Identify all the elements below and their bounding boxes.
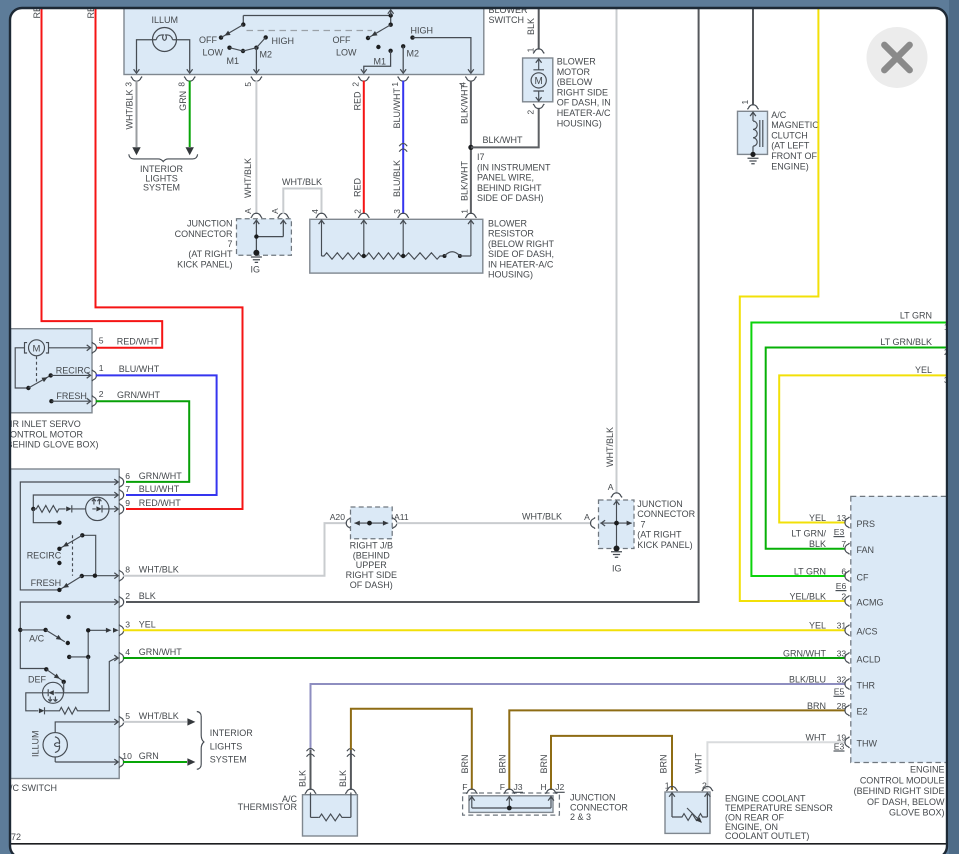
svg-text:FAN: FAN: [857, 545, 875, 555]
svg-text:7: 7: [841, 539, 846, 549]
close button: [867, 27, 928, 88]
svg-text:M: M: [33, 343, 41, 354]
svg-text:BLK: BLK: [526, 18, 536, 35]
junction connector 7 (middle) internal: [600, 501, 632, 552]
svg-text:A/CS: A/CS: [857, 627, 878, 637]
A/C thermistor pin right: [345, 789, 356, 794]
wire BLU/WHT-BLU/BLK blower pin 1 to resistor pin 3: [392, 81, 407, 214]
svg-text:9: 9: [125, 498, 130, 508]
wire WHT coolant sensor pin 2 to ECM THW: [694, 742, 846, 790]
wire A/C pin 2 internal: [18, 599, 118, 668]
svg-text:OF DASH, IN: OF DASH, IN: [557, 98, 611, 108]
Right J/B internal: [354, 521, 388, 526]
svg-text:LT GRN: LT GRN: [900, 310, 932, 320]
svg-text:A20: A20: [330, 512, 346, 522]
ECM pin 13 PRS: [809, 513, 875, 529]
wire WHT/BLK A/C pin 5 to interior lights: [123, 718, 195, 725]
svg-text:COOLANT OUTLET): COOLANT OUTLET): [725, 831, 809, 841]
junction connector 7 (middle) box: [599, 500, 635, 549]
A/C switch pin 7: [119, 484, 180, 501]
mechanical link (dashed): [247, 30, 373, 32]
svg-text:AIR INLET SERVO: AIR INLET SERVO: [4, 419, 81, 429]
svg-text:A/C: A/C: [771, 110, 787, 120]
svg-text:JUNCTION: JUNCTION: [187, 219, 233, 229]
svg-text:A11: A11: [394, 512, 409, 522]
svg-text:J2: J2: [555, 782, 564, 792]
svg-text:BLK: BLK: [139, 591, 156, 601]
blower motor box: [523, 58, 553, 102]
label INTERIOR LIGHTS SYSTEM (bottom): [210, 728, 254, 764]
servo pin wire labels: [117, 336, 161, 400]
wire lamp left leg to pin 3: [137, 40, 157, 72]
svg-text:1: 1: [665, 780, 670, 790]
svg-text:5: 5: [243, 82, 253, 87]
connector id E3 (THW): [834, 742, 845, 752]
svg-text:(BELOW RIGHT: (BELOW RIGHT: [488, 239, 555, 249]
svg-text:LIGHTS: LIGHTS: [210, 741, 243, 751]
blower motor pin 1: [526, 47, 545, 53]
svg-text:GRN: GRN: [139, 751, 159, 761]
A/C switch pin 8: [119, 565, 179, 582]
wire YEL A/C pin 3 to ECM A/CS: [123, 629, 845, 631]
blower switch box: [124, 2, 484, 75]
svg-text:RED/WHT: RED/WHT: [117, 336, 159, 346]
A/C thermistor box: [303, 795, 358, 836]
Right J/B pin A11: [392, 512, 409, 529]
svg-text:BLK: BLK: [298, 770, 308, 787]
svg-text:GRN/WHT: GRN/WHT: [139, 471, 182, 481]
svg-text:2: 2: [352, 209, 362, 214]
blower switch pin 2: [351, 77, 370, 87]
svg-text:32: 32: [837, 674, 847, 684]
svg-text:3: 3: [392, 209, 402, 214]
svg-text:FRONT OF: FRONT OF: [771, 151, 817, 161]
servo pin 2: [92, 389, 104, 407]
ground (clutch): [748, 158, 759, 163]
switch arm OFF (section 2): [366, 25, 391, 41]
svg-text:SIDE OF DASH): SIDE OF DASH): [477, 193, 544, 203]
wire WHT/BLK blower pin 3: [125, 81, 141, 156]
svg-text:GRN/WHT: GRN/WHT: [117, 390, 160, 400]
svg-text:13: 13: [837, 513, 847, 523]
svg-text:YEL: YEL: [809, 513, 826, 523]
label BLOWER MOTOR: [557, 57, 611, 129]
svg-text:OFF: OFF: [199, 35, 217, 45]
blower resistor pin 1: [460, 209, 477, 224]
svg-text:8: 8: [125, 565, 130, 575]
svg-text:CONNECTOR: CONNECTOR: [175, 229, 233, 239]
junction connector 7 (left) pin A1: [243, 208, 262, 224]
svg-text:4: 4: [125, 647, 130, 657]
svg-text:BLK/WHT: BLK/WHT: [459, 83, 469, 124]
svg-text:INTERIOR: INTERIOR: [210, 728, 254, 738]
svg-text:CONNECTOR: CONNECTOR: [570, 802, 628, 812]
splice I7 label: [477, 152, 551, 203]
svg-text:2: 2: [702, 780, 707, 790]
label ENGINE CONTROL MODULE: [854, 765, 945, 818]
svg-text:BLK: BLK: [809, 539, 826, 549]
wire BLK/BLU ECM THR to A/C thermistor: [311, 684, 846, 750]
svg-text:BLK/BLU: BLK/BLU: [789, 674, 826, 684]
svg-text:UPPER: UPPER: [356, 560, 388, 570]
svg-text:OFF: OFF: [333, 35, 351, 45]
svg-text:1: 1: [740, 100, 750, 105]
svg-text:MOTOR: MOTOR: [557, 67, 591, 77]
svg-text:BRN: BRN: [807, 701, 826, 711]
junction connector 7 (left) pin A2: [270, 208, 289, 224]
contacts section 2: [376, 35, 415, 53]
wire LT GRN to ECM CF: [751, 310, 949, 576]
svg-text:BLU/WHT: BLU/WHT: [119, 364, 160, 374]
svg-text:7: 7: [125, 484, 130, 494]
svg-text:7: 7: [641, 519, 646, 529]
blower switch pin 1: [390, 77, 409, 87]
JC2&3 pin H J2: [540, 782, 564, 801]
DEF LED wiring to pin 4: [26, 657, 88, 715]
svg-text:KICK PANEL): KICK PANEL): [637, 540, 692, 550]
blower resistor pin 4: [310, 209, 327, 224]
wire BLK to blower motor pin 1: [526, 2, 539, 50]
wire LT GRN/BLK to ECM FAN: [766, 337, 949, 549]
svg-text:GRN: GRN: [178, 91, 188, 111]
resistor junction dots: [362, 254, 406, 258]
coolant sensor pin 2: [702, 780, 713, 797]
svg-text:RIGHT J/B: RIGHT J/B: [350, 541, 393, 551]
svg-text:OF DASH): OF DASH): [350, 580, 393, 590]
A/C magnetic clutch box: [738, 111, 768, 154]
svg-text:BLOWER: BLOWER: [488, 219, 528, 229]
svg-text:5: 5: [125, 711, 130, 721]
svg-text:ILLUM: ILLUM: [152, 15, 179, 25]
coolant sensor pin 1: [665, 780, 678, 797]
blower resistor box: [310, 219, 483, 273]
svg-text:F: F: [500, 782, 505, 792]
RECIRC arm (A/C switch): [27, 535, 83, 565]
diagram bottom frame line: [10, 843, 947, 845]
svg-text:BLK: BLK: [338, 770, 348, 787]
svg-text:1: 1: [99, 363, 104, 373]
blower motor M symbol: [531, 59, 546, 102]
wire GRN A/C pin 10 to interior lights: [123, 758, 195, 765]
wire WHT/BLK junction connector loop to resistor pin 4: [282, 177, 322, 214]
wire A/C pin 7 internal: [31, 492, 118, 511]
svg-text:YEL: YEL: [139, 619, 156, 629]
svg-text:BRN: BRN: [460, 754, 470, 773]
svg-text:RIGHT SIDE: RIGHT SIDE: [346, 570, 397, 580]
svg-text:(AT RIGHT: (AT RIGHT: [188, 249, 233, 259]
servo switch arm: [28, 373, 53, 388]
svg-text:HIGH: HIGH: [411, 26, 434, 36]
blower switch pin 4: [458, 77, 477, 87]
junction connector 7 (left) box: [237, 219, 292, 256]
label JUNCTION CONNECTOR 7 (left): [175, 219, 233, 270]
svg-text:HOUSING): HOUSING): [488, 270, 533, 280]
svg-text:WHT/BLK: WHT/BLK: [282, 177, 322, 187]
A/C switch pin 5: [119, 711, 179, 728]
svg-text:RECIRC: RECIRC: [27, 550, 62, 560]
ECM pin 7 FAN: [841, 539, 874, 555]
svg-text:1: 1: [460, 209, 470, 214]
svg-text:3: 3: [125, 619, 130, 629]
label JUNCTION CONNECTOR 2 & 3: [570, 793, 628, 823]
svg-text:LOW: LOW: [203, 47, 224, 57]
JC2&3 pin F: [462, 782, 477, 801]
svg-text:M2: M2: [260, 50, 273, 60]
svg-text:SYSTEM: SYSTEM: [210, 754, 247, 764]
labels OFF LOW M1 M2 HIGH (section 1): [199, 35, 294, 66]
junction connector 2&3 outer dashed box: [463, 793, 560, 815]
label RIGHT J/B: [346, 541, 397, 590]
svg-text:RIGHT SIDE: RIGHT SIDE: [557, 87, 608, 97]
coolant sensor box: [665, 792, 710, 833]
A/C switch pin 2: [119, 591, 156, 608]
label BLOWER RESISTOR: [488, 219, 555, 280]
svg-text:WHT/BLK: WHT/BLK: [125, 89, 135, 129]
resistor element 1: [322, 253, 364, 259]
svg-text:M1: M1: [227, 56, 240, 66]
svg-text:A: A: [243, 208, 253, 214]
svg-text:JUNCTION: JUNCTION: [570, 793, 616, 803]
blower switch common feed wire: [243, 16, 390, 25]
svg-text:A: A: [270, 208, 280, 214]
svg-text:THW: THW: [857, 739, 878, 749]
svg-text:M: M: [535, 76, 543, 87]
svg-text:F: F: [462, 782, 467, 792]
svg-text:CONTROL MODULE: CONTROL MODULE: [860, 775, 945, 785]
svg-text:LT GRN/BLK: LT GRN/BLK: [880, 337, 932, 347]
resistor element 2: [364, 253, 403, 259]
svg-text:CONNECTOR: CONNECTOR: [637, 509, 695, 519]
blower resistor pin 2: [352, 209, 369, 224]
blower resistor pin 3: [392, 209, 409, 224]
wire BRN thermistor to junction connector 2&3 pin F: [351, 709, 472, 790]
air inlet servo motor box: [11, 329, 93, 413]
svg-text:M2: M2: [407, 49, 420, 59]
ECM pin 33 ACLD: [783, 648, 881, 664]
svg-text:I7: I7: [477, 152, 485, 162]
svg-text:E3: E3: [834, 527, 845, 537]
junction connector 2&3 inner box: [469, 796, 553, 813]
svg-text:72: 72: [11, 832, 21, 842]
stub from LED feed node: [33, 509, 61, 525]
lamp ILLUM (A/C switch): [31, 719, 119, 765]
JC2&3 pin F J3: [500, 782, 523, 801]
label A/C MAGNETIC CLUTCH: [771, 110, 819, 172]
wire BLU/WHT servo pin 1 to A/C switch pin 7: [96, 375, 217, 495]
svg-text:PRS: PRS: [857, 519, 876, 529]
svg-text:1: 1: [526, 47, 536, 52]
svg-text:(BEHIND GLOVE BOX): (BEHIND GLOVE BOX): [4, 440, 99, 450]
svg-text:LT GRN/: LT GRN/: [791, 529, 826, 539]
svg-text:ENGINE: ENGINE: [910, 765, 945, 775]
svg-text:2: 2: [99, 389, 104, 399]
svg-text:YEL/BLK: YEL/BLK: [789, 591, 826, 601]
wire lamp right leg to pin 8: [173, 40, 190, 72]
resistor element 3: [403, 253, 442, 259]
servo motor M symbol: [25, 340, 49, 356]
svg-text:(BEHIND RIGHT SIDE: (BEHIND RIGHT SIDE: [854, 786, 945, 796]
wire GRN/WHT A/C pin 4 to ECM ACLD: [123, 657, 845, 659]
ECM pin 19 THW: [806, 733, 878, 749]
svg-text:PANEL WIRE,: PANEL WIRE,: [477, 173, 534, 183]
svg-text:THR: THR: [857, 680, 876, 690]
svg-text:E6: E6: [836, 581, 847, 591]
clutch coil: [750, 112, 763, 157]
junction connector 7 (left) internal bus: [253, 220, 283, 256]
wire BRN junction connector 2&3 pin H to coolant sensor pin 1: [539, 736, 672, 790]
svg-text:CF: CF: [857, 572, 869, 582]
svg-text:HOUSING): HOUSING): [557, 118, 602, 128]
ECM pin 32 THR: [789, 674, 876, 690]
engine control module box: [851, 496, 959, 762]
svg-text:7: 7: [227, 239, 232, 249]
svg-text:BEHIND RIGHT: BEHIND RIGHT: [477, 183, 542, 193]
svg-text:E3: E3: [834, 742, 845, 752]
junction connector 7 (middle) pin A top: [608, 482, 622, 497]
wire RED feed 2 to A/C switch pin 9: [86, 0, 243, 509]
wire YEL to ECM PRS: [779, 365, 949, 522]
svg-text:E5: E5: [834, 687, 845, 697]
wire M1 to pin 2: [364, 51, 391, 72]
svg-text:RED: RED: [352, 177, 362, 197]
svg-text:A: A: [608, 482, 614, 492]
svg-text:IG: IG: [612, 564, 622, 574]
A/C switch pin 6: [119, 471, 182, 488]
A/C indicator LED: [86, 497, 119, 520]
svg-text:BLK/WHT: BLK/WHT: [459, 160, 469, 201]
svg-text:RED/WHT: RED/WHT: [139, 498, 181, 508]
svg-text:2: 2: [351, 82, 361, 87]
servo RECIRC contact: [51, 365, 91, 378]
servo FRESH contact: [49, 391, 90, 404]
ECM pin 28 E2: [807, 701, 868, 717]
svg-text:IN HEATER-A/C: IN HEATER-A/C: [488, 259, 554, 269]
ECM pin 2 ACMG: [789, 591, 883, 607]
svg-text:A/C: A/C: [29, 633, 45, 643]
connector id E3 (PRS): [834, 527, 845, 537]
wire BLK thermistor right pin: [338, 748, 355, 790]
svg-text:H: H: [540, 782, 546, 792]
A/C thermistor pin left: [305, 789, 316, 794]
svg-text:KICK PANEL): KICK PANEL): [177, 259, 232, 269]
wire M2 to pin 1: [402, 46, 404, 72]
svg-text:CONTROL MOTOR: CONTROL MOTOR: [4, 429, 84, 439]
svg-text:RED: RED: [352, 91, 362, 111]
blower switch pin 5: [243, 77, 262, 87]
A/C function switch: [20, 615, 70, 645]
servo pin 1: [92, 363, 104, 381]
blower resistor internal leads: [322, 220, 471, 256]
wire BLK/WHT blower pin 4 to resistor pin 1: [459, 81, 473, 214]
svg-text:ILLUM: ILLUM: [31, 730, 41, 757]
labels OFF LOW M1 M2 HIGH (section 2): [333, 26, 434, 67]
svg-text:LOW: LOW: [336, 47, 357, 57]
A/C magnetic clutch pin 1: [740, 100, 759, 110]
A/C thermistor element: [311, 793, 351, 821]
svg-text:1: 1: [390, 82, 400, 87]
svg-text:(AT LEFT: (AT LEFT: [771, 141, 810, 151]
svg-text:YEL: YEL: [915, 365, 932, 375]
svg-text:HIGH: HIGH: [272, 36, 295, 46]
svg-text:DEF: DEF: [28, 674, 47, 684]
label JUNCTION CONNECTOR 7 (middle): [637, 499, 695, 550]
DEF indicator LED: [43, 682, 64, 703]
resistor (DEF LED): [58, 707, 80, 714]
RECIRC/FRESH mode switch: [73, 533, 119, 579]
DEF switch arm: [28, 667, 66, 684]
svg-text:OF DASH, BELOW: OF DASH, BELOW: [867, 797, 945, 807]
svg-text:BRN: BRN: [539, 754, 549, 773]
label INTERIOR LIGHTS SYSTEM (top): [140, 164, 184, 193]
svg-text:BLU/BLK: BLU/BLK: [392, 160, 402, 197]
svg-text:WHT: WHT: [694, 753, 704, 774]
blower switch pin 8: [177, 77, 196, 87]
A/C switch pin 4: [119, 647, 182, 664]
svg-text:BLOWER: BLOWER: [557, 57, 597, 67]
coolant sensor thermistor element: [672, 793, 707, 825]
svg-text:LT GRN: LT GRN: [794, 566, 826, 576]
wire GRN blower pin 8: [178, 81, 194, 156]
svg-text:A/C SWITCH: A/C SWITCH: [4, 783, 57, 793]
ground IG (junction connector 7 left): [251, 257, 262, 275]
svg-text:BRN: BRN: [658, 754, 668, 773]
svg-text:RECIRC: RECIRC: [56, 365, 91, 375]
svg-text:A: A: [584, 512, 590, 522]
svg-text:BLU/WHT: BLU/WHT: [139, 484, 180, 494]
junction connector 7 (middle) pin A left: [584, 512, 595, 529]
svg-text:SWITCH: SWITCH: [489, 15, 525, 25]
JC2&3 internal bus: [472, 796, 551, 810]
svg-text:3: 3: [123, 82, 133, 87]
wire A/C pin 6 internal loop: [20, 479, 118, 590]
svg-text:2: 2: [526, 110, 536, 115]
ECM pin 31 A/CS: [809, 621, 878, 637]
svg-text:31: 31: [837, 621, 847, 631]
svg-text:5: 5: [99, 336, 104, 346]
label AIR INLET SERVO CONTROL MOTOR: [4, 419, 99, 450]
Right J/B pin A20: [330, 512, 351, 529]
svg-text:WHT: WHT: [806, 733, 827, 743]
wire BLK to A/C thermistor pin: [298, 748, 315, 790]
svg-text:10: 10: [122, 751, 132, 761]
A/C switch pin 9: [119, 498, 181, 515]
brace interior lights system (top): [129, 154, 198, 161]
label A/C THERMISTOR: [238, 794, 298, 812]
ECM pin 6 CF: [794, 566, 869, 582]
svg-text:TEMPERATURE SENSOR: TEMPERATURE SENSOR: [725, 803, 833, 813]
svg-text:SYSTEM: SYSTEM: [143, 183, 180, 193]
svg-text:2 & 3: 2 & 3: [570, 812, 591, 822]
svg-text:CLUTCH: CLUTCH: [771, 130, 808, 140]
svg-text:WHT/BLK: WHT/BLK: [243, 158, 253, 198]
svg-text:YEL: YEL: [809, 621, 826, 631]
wire BLK/WHT splice to blower motor pin 2: [471, 108, 539, 147]
blower motor pin 2: [526, 104, 545, 115]
blower switch pin 3: [123, 77, 142, 87]
wire YEL to ECM ACMG: [740, 2, 845, 601]
A/C switch pin 10: [119, 751, 159, 768]
wire WHT/BLK A/C pin 8 to Right J/B: [123, 523, 347, 576]
svg-text:THERMISTOR: THERMISTOR: [238, 802, 298, 812]
wire BRN junction connector 2&3 to ECM E2: [497, 710, 845, 790]
A/C LED feed resistor: [33, 506, 62, 513]
svg-text:2: 2: [841, 591, 846, 601]
label ENGINE COOLANT TEMPERATURE SENSOR: [725, 794, 833, 842]
svg-text:BRN: BRN: [497, 754, 507, 773]
ground IG (junction connector 7 middle): [611, 552, 622, 574]
svg-text:WHT/BLK: WHT/BLK: [139, 565, 179, 575]
wire GRN/WHT servo pin 2 to A/C switch pin 6: [96, 401, 190, 482]
